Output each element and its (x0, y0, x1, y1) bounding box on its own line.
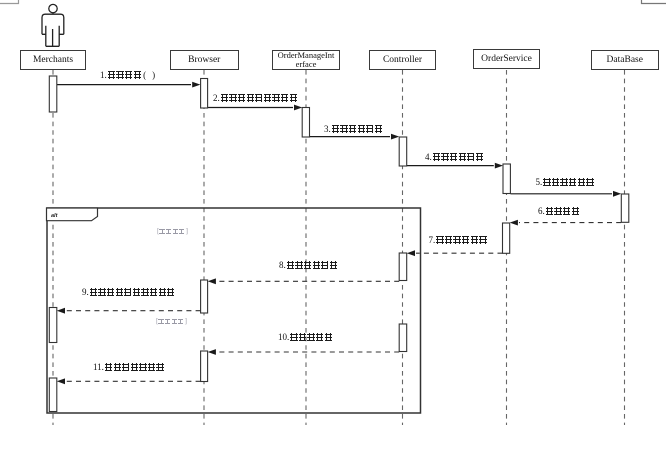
lifeline Browser (dashed) (203, 70, 205, 425)
alt operator text (51, 213, 57, 219)
object box Merchants (20, 50, 86, 70)
message 4 solid arrow 更新订单状态 (407, 165, 494, 167)
message 5 solid arrow 更新订单信息 (511, 193, 613, 195)
message 10 dashed return 显示未更新 (217, 351, 399, 353)
activation Merchants 2 (49, 308, 57, 343)
label message 9: 9.显示更新后的订单信息 (82, 288, 176, 296)
activation Merchants 3 (49, 378, 57, 412)
message 3 solid arrow 提交订单更新 (310, 136, 391, 138)
activation OrderManageInterface 1 (302, 108, 309, 138)
activation Controller 1 (399, 137, 407, 166)
partial rectangle top-left (0, 0, 19, 4)
activation DataBase 1 (621, 194, 629, 222)
label message 7: 7.返回更新结果 (429, 236, 488, 244)
label message 10: 10.显示未更新 (278, 333, 333, 341)
message 9 dashed return 显示更新后的订单信息 (66, 310, 201, 312)
lifeline OrderService (dashed) (506, 70, 508, 425)
label message 2: 2.选择并更新订单状态 (213, 94, 298, 102)
guard 更新失败 (156, 318, 187, 325)
message 8 dashed return 显示更新成功 (217, 280, 399, 282)
lifeline OrderManageInterface (dashed) (305, 70, 307, 425)
message 7 dashed return 返回更新结果 (416, 252, 503, 254)
lifeline Merchants (dashed) (52, 70, 54, 425)
activation Controller 3 (399, 324, 407, 352)
alt fragment frame (47, 208, 421, 413)
message 11 dashed return 显示原订单信息 (66, 380, 201, 382)
partial rectangle top-right (642, 0, 667, 4)
object box Browser (170, 50, 239, 71)
lifeline Controller (dashed) (402, 70, 404, 425)
lifeline DataBase (dashed) (624, 70, 626, 425)
actor Merchants (stick figure) (42, 4, 64, 46)
label message 5: 5.更新订单信息 (536, 178, 595, 186)
object box Controller (369, 50, 436, 70)
object box DataBase (591, 50, 659, 70)
activation Controller 2 (399, 253, 407, 281)
message 1 solid arrow 登录系统 (57, 84, 191, 86)
activation Browser 1 (201, 79, 208, 109)
message 2 solid arrow 选择并更新订单状态 (208, 107, 293, 109)
alt label pentagon (47, 208, 98, 221)
guard 更新成功 (157, 228, 188, 235)
label message 11: 11.显示原订单信息 (93, 363, 165, 371)
activation Merchants 1 (49, 76, 57, 112)
label message 3: 3.提交订单更新 (324, 125, 383, 133)
label message 6: 6.确认更新 (538, 207, 580, 215)
activation Browser 3 (201, 351, 208, 382)
activation Browser 2 (201, 280, 208, 313)
label message 4: 4.更新订单状态 (425, 153, 484, 161)
label message 8: 8.显示更新成功 (279, 261, 338, 269)
activation OrderService 1 (503, 164, 510, 194)
message 6 dashed return 确认更新 (519, 222, 621, 224)
object box OrderService (473, 49, 540, 69)
activation OrderService 2 (503, 223, 510, 253)
label message 1: 1.登录系统（） (100, 71, 162, 79)
object box OrderManageInterface (272, 50, 340, 70)
